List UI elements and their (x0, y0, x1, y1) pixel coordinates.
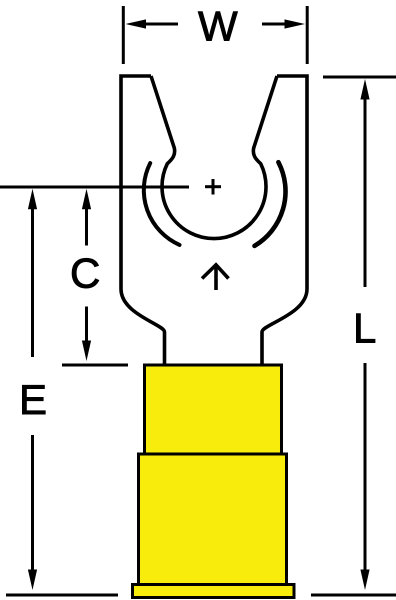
svg-text:L: L (353, 304, 376, 351)
svg-text:C: C (70, 250, 100, 297)
svg-text:E: E (19, 376, 47, 423)
svg-text:W: W (198, 3, 238, 50)
